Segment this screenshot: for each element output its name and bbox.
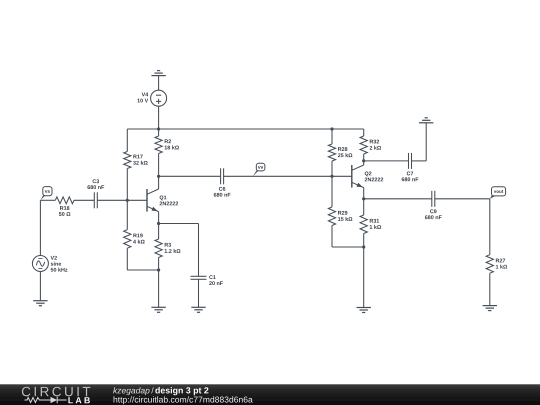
- resistor R17 32 kΩ: [124, 152, 148, 169]
- wire: [97, 199, 147, 201]
- node Q1 emitter junction: [157, 222, 160, 225]
- wire: [198, 224, 200, 277]
- wire: [332, 246, 364, 248]
- wire: [126, 248, 128, 270]
- capacitor C3 680 nF: [87, 179, 104, 208]
- resistor R3 1.2 kΩ: [155, 239, 180, 258]
- wire: [198, 279, 200, 307]
- wire: [158, 258, 160, 271]
- wire: [363, 154, 365, 161]
- wire: [158, 129, 160, 136]
- wire: [331, 176, 333, 207]
- ground (above V4): [151, 71, 165, 76]
- resistor R27 1 kΩ: [486, 255, 507, 274]
- wire: [331, 226, 333, 248]
- wire top rail: [127, 128, 363, 130]
- ground: [191, 307, 205, 312]
- wire: [363, 234, 365, 248]
- node flag vs: [40, 187, 52, 201]
- wire: [158, 270, 160, 307]
- wire: [224, 175, 352, 177]
- ground: [483, 306, 497, 311]
- wire: [40, 199, 55, 201]
- node R32-C7 collector junction: [362, 159, 365, 162]
- wire: [74, 199, 94, 201]
- wire: [158, 76, 160, 91]
- logo resistor+diode symbol: [25, 397, 67, 403]
- logo LAB text: [68, 397, 89, 403]
- wire: [425, 123, 427, 161]
- wire: [39, 200, 41, 255]
- resistor R19 4 kΩ: [124, 230, 145, 249]
- CircuitLab logo: CIRCUIT text: [22, 387, 90, 397]
- node Q1 collector junction: [157, 175, 160, 178]
- capacitor C6 680 nF: [214, 168, 231, 196]
- resistor R29 15 kΩ: [328, 207, 352, 226]
- transistor Q2 2N2222: [352, 161, 383, 199]
- ground: [151, 307, 165, 312]
- node R3-R19 junction: [157, 268, 160, 271]
- node Q2 emitter junction: [362, 197, 365, 200]
- capacitor C9 680 nF: [425, 191, 442, 219]
- wire: [126, 169, 128, 201]
- ground: [33, 301, 47, 306]
- wire: [39, 272, 41, 301]
- ground: [357, 308, 371, 313]
- resistor R28 25 kΩ: [328, 144, 352, 161]
- resistor R2 18 kΩ: [155, 136, 179, 154]
- ground: [419, 118, 433, 123]
- transistor Q1 2N2222: [147, 176, 178, 223]
- wire: [363, 129, 365, 136]
- wire: [158, 154, 160, 177]
- wire: [331, 161, 333, 176]
- node V4-R2 rail junction: [157, 127, 160, 130]
- footer line 1: user / title: [113, 387, 149, 395]
- voltage source V4 10 V: [137, 90, 166, 106]
- wire: [158, 224, 160, 240]
- footer line 2: url: [114, 396, 253, 404]
- wire: [159, 175, 221, 177]
- wire: [364, 160, 409, 162]
- wire: [363, 247, 365, 308]
- resistor R18 50 Ω: [55, 197, 74, 216]
- node R17-R19 base junction: [126, 199, 129, 202]
- wire: [364, 198, 432, 200]
- wire: [126, 129, 128, 152]
- wire: [159, 223, 199, 225]
- wire: [126, 200, 128, 229]
- wire: [435, 198, 490, 200]
- wire: [489, 199, 491, 255]
- node R31-R29 junction: [362, 245, 365, 248]
- node flag vv: [253, 163, 265, 176]
- node R28 rail junction: [330, 127, 333, 130]
- wire: [363, 199, 365, 215]
- resistor R31 1 kΩ: [360, 215, 381, 234]
- capacitor C1 20 nF: [191, 275, 223, 285]
- resistor R32 2 kΩ: [360, 136, 381, 154]
- wire: [489, 273, 491, 305]
- capacitor C7 680 nF: [402, 153, 419, 181]
- wire: [158, 106, 160, 129]
- wire: [127, 269, 158, 271]
- voltage source V2 sine 50 kHz: [32, 256, 67, 272]
- wire: [412, 160, 427, 162]
- node flag vout: [490, 187, 506, 199]
- wire: [331, 129, 333, 144]
- node R28-R29 base junction: [330, 175, 333, 178]
